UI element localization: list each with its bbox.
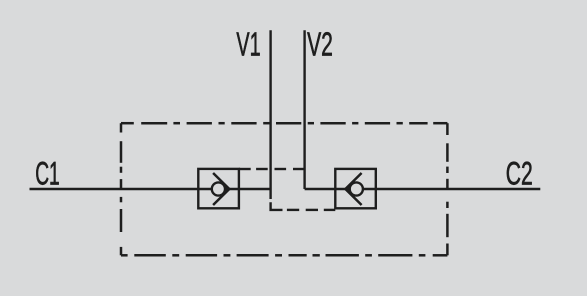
svg-text:C1: C1: [35, 155, 60, 191]
svg-text:V1: V1: [236, 25, 260, 63]
svg-text:V2: V2: [307, 26, 333, 63]
svg-text:C2: C2: [506, 155, 533, 192]
